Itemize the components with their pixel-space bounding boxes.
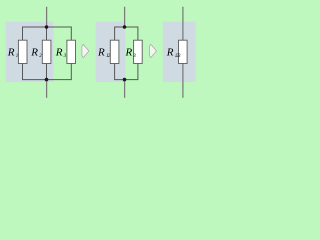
svg-text:R: R [55,46,63,58]
svg-text:R: R [125,46,133,58]
svg-text:R: R [30,46,38,58]
svg-text:R: R [7,46,15,58]
svg-text:1: 1 [16,54,18,59]
svg-text:R: R [166,46,174,58]
svg-text:R: R [97,46,105,58]
